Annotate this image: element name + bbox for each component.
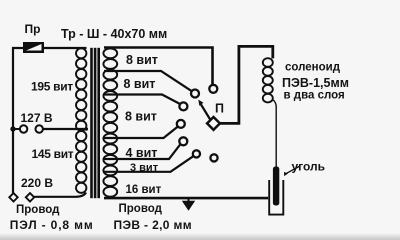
svg-text:4 вит: 4 вит (126, 146, 158, 160)
svg-text:8 вит: 8 вит (125, 110, 157, 124)
svg-text:Провод: Провод (16, 204, 60, 216)
svg-text:Тр - Ш - 40х70 мм: Тр - Ш - 40х70 мм (61, 27, 167, 41)
svg-text:3 вит: 3 вит (130, 162, 159, 174)
svg-text:16 вит: 16 вит (126, 184, 162, 196)
svg-text:127 В: 127 В (21, 111, 53, 125)
svg-text:уголь: уголь (292, 160, 326, 174)
svg-text:145 вит: 145 вит (32, 147, 74, 161)
svg-text:220 В: 220 В (21, 176, 53, 190)
svg-text:Пр: Пр (25, 22, 41, 36)
svg-text:195 вит: 195 вит (31, 80, 73, 94)
svg-text:8 вит: 8 вит (124, 77, 156, 91)
svg-text:Провод: Провод (119, 203, 163, 215)
svg-text:8 вит: 8 вит (126, 53, 158, 67)
svg-text:П: П (215, 102, 224, 116)
svg-text:ПЭЛ - 0,8 мм: ПЭЛ - 0,8 мм (10, 218, 94, 232)
svg-text:ПЭВ-1,5мм: ПЭВ-1,5мм (282, 76, 349, 90)
svg-text:соленоид: соленоид (285, 62, 341, 74)
svg-text:в два слоя: в два слоя (284, 90, 345, 102)
svg-text:ПЭВ - 2,0 мм: ПЭВ - 2,0 мм (114, 218, 192, 232)
